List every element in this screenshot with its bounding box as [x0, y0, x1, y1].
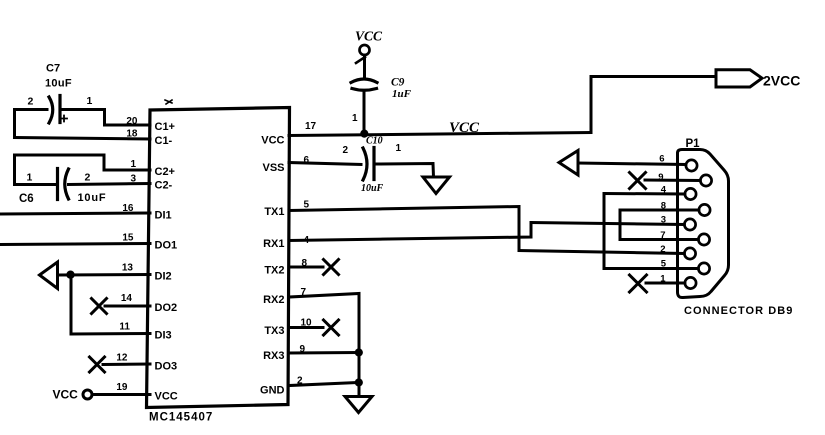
wire DB9 pin 4 [604, 192, 685, 196]
wire VSS to C10 [289, 163, 361, 165]
svg-text:1: 1 [396, 143, 402, 154]
svg-text:C1-: C1- [155, 135, 173, 147]
tick mark on VCC wire [356, 57, 365, 63]
wire DB9 pin 7 [620, 238, 698, 241]
capacitor C10 [363, 148, 374, 181]
no-connect X DO2 [92, 299, 107, 314]
IC U1 MC145407 body [147, 100, 290, 408]
svg-text:14: 14 [121, 293, 133, 304]
svg-text:1: 1 [352, 113, 358, 124]
wire C6 bottom left to plate [15, 183, 57, 186]
wire C9 to VCC net [363, 91, 366, 134]
wire C6 plate to C2- [69, 184, 151, 185]
wire DI2 [58, 273, 151, 277]
ground symbol G1 [423, 177, 450, 194]
svg-text:7: 7 [660, 230, 665, 241]
wire DO3 [103, 363, 150, 367]
capacitor C9 [351, 79, 377, 90]
svg-text:1uF: 1uF [392, 88, 412, 100]
svg-text:10uF: 10uF [361, 183, 384, 194]
no-connect X TX2 [324, 260, 339, 275]
svg-text:2VCC: 2VCC [763, 73, 800, 89]
wire bus pin4 to pin5 [603, 194, 606, 269]
wire TX2 [289, 266, 323, 269]
svg-text:TX3: TX3 [264, 325, 284, 337]
wire C7 left vertical [13, 110, 16, 138]
svg-text:3: 3 [661, 215, 666, 226]
svg-text:VCC: VCC [155, 391, 178, 403]
DB9 pin 8 circle [699, 204, 710, 215]
wire VCC terminal to C9 [363, 55, 366, 77]
ground symbol G2 [345, 397, 372, 413]
wire DB9 pin 2 to TX1 [519, 251, 684, 254]
wire C10 to ground [376, 164, 434, 178]
DB9 pin 2 circle [684, 248, 695, 259]
wire VCC net to flag [591, 75, 716, 78]
svg-text:C2-: C2- [155, 180, 173, 192]
junction GND node [355, 378, 363, 386]
svg-text:6: 6 [659, 154, 664, 165]
svg-text:1: 1 [130, 159, 136, 170]
no-connect X TX3 [324, 320, 339, 335]
svg-text:2: 2 [660, 244, 665, 255]
wire DO1 [0, 244, 150, 245]
svg-text:4: 4 [661, 185, 667, 196]
svg-text:RX3: RX3 [263, 350, 284, 362]
no-connect X DB9 pin 1 [630, 275, 647, 292]
wire jog down to C2+ [104, 155, 150, 170]
svg-text:C1+: C1+ [155, 121, 176, 133]
DB9 pin 5 circle [698, 263, 709, 274]
connector P1 DB9 shell [678, 150, 729, 298]
svg-text:DO3: DO3 [155, 361, 178, 373]
svg-text:VCC: VCC [261, 135, 284, 147]
wire TX1 [289, 207, 519, 251]
svg-text:RX2: RX2 [263, 294, 284, 306]
junction VCC/C9 node [360, 130, 368, 138]
wire DB9 pin 9 [645, 179, 700, 183]
DB9 pin 9 circle [700, 175, 711, 186]
svg-text:RX1: RX1 [263, 238, 284, 250]
svg-text:C7: C7 [46, 63, 60, 75]
svg-text:VSS: VSS [262, 162, 284, 174]
wire VCC net horizontal [289, 133, 591, 136]
svg-text:1: 1 [27, 172, 33, 184]
svg-text:1: 1 [87, 95, 93, 107]
wire RX2 [289, 294, 359, 384]
wire bottom to C1- [15, 138, 151, 140]
wire DB9 pin 1 [646, 282, 685, 285]
junction RX3/RX2 node [355, 348, 363, 356]
wire C6 left vertical [13, 155, 16, 185]
wire GND to ground [358, 383, 361, 397]
svg-text:TX1: TX1 [264, 206, 284, 218]
wire VCC net vertical up [590, 77, 593, 133]
svg-text:19: 19 [116, 382, 128, 393]
wire DI1 [0, 213, 150, 214]
svg-text:2: 2 [28, 96, 34, 108]
svg-text:2: 2 [343, 145, 349, 156]
svg-text:15: 15 [122, 233, 134, 244]
wire GND pin [289, 383, 359, 386]
svg-text:17: 17 [305, 121, 317, 132]
wire jog down to C1+ [105, 110, 151, 126]
svg-text:11: 11 [119, 322, 130, 333]
arrow at DB9 pin 6 [559, 151, 578, 176]
DB9 pin 6 circle [686, 160, 697, 171]
wire DO2 [105, 305, 150, 308]
svg-text:DO1: DO1 [155, 240, 178, 252]
svg-text:DO2: DO2 [155, 302, 178, 314]
svg-text:1: 1 [660, 274, 666, 285]
wire RX1 [289, 223, 531, 241]
svg-text:DI1: DI1 [155, 210, 172, 222]
DB9 pin 1 circle [685, 277, 696, 288]
arrow input DI2 [40, 262, 58, 289]
svg-text:TX2: TX2 [264, 265, 284, 277]
svg-text:VCC: VCC [355, 29, 383, 44]
wire DB9 pin 8 [620, 209, 699, 212]
svg-text:10uF: 10uF [78, 192, 107, 204]
junction DI2 node [66, 271, 74, 279]
DB9 pin 4 circle [685, 188, 696, 199]
wire DB9 pin 5 [604, 267, 698, 270]
wire TX3 [289, 326, 323, 329]
terminal VCC top [355, 29, 383, 56]
capacitor C6 [58, 169, 69, 200]
svg-text:DI3: DI3 [155, 330, 172, 342]
svg-text:MC145407: MC145407 [149, 412, 213, 424]
svg-text:13: 13 [122, 263, 134, 274]
svg-text:P1: P1 [686, 138, 701, 150]
DB9 pin 3 circle [684, 219, 695, 230]
svg-text:10uF: 10uF [45, 78, 72, 90]
svg-text:5: 5 [661, 259, 667, 270]
wire C6 top to jog [15, 154, 105, 157]
no-connect X DO3 [90, 357, 105, 372]
wire DB9 pin 3 to RX1 [531, 223, 684, 225]
svg-text:C6: C6 [19, 193, 34, 205]
power flag 2VCC [716, 70, 762, 87]
wire bus pin8 to pin7 [619, 210, 622, 240]
wire VCC left pin 19 [92, 393, 150, 396]
svg-text:VCC: VCC [53, 388, 79, 402]
svg-text:CONNECTOR DB9: CONNECTOR DB9 [684, 305, 793, 317]
wire C7 plate to jog [60, 108, 105, 111]
svg-text:VCC: VCC [449, 120, 480, 136]
svg-text:2: 2 [85, 172, 91, 184]
wire DB9 pin 6 to arrow [578, 163, 686, 165]
svg-text:8: 8 [661, 201, 666, 212]
wire RX3 [289, 351, 359, 355]
svg-text:GND: GND [260, 385, 285, 397]
wire DI2 to DI3 vertical [70, 275, 73, 334]
capacitor C7 [49, 96, 67, 124]
wire DI3 [71, 332, 150, 336]
DB9 pin 7 circle [698, 234, 709, 245]
svg-text:9: 9 [658, 172, 663, 183]
wire C7 left to plate [15, 108, 48, 111]
svg-text:C9: C9 [391, 77, 405, 89]
svg-text:12: 12 [116, 353, 128, 364]
no-connect X DB9 pin 9 [630, 173, 646, 189]
svg-text:DI2: DI2 [155, 271, 172, 283]
svg-text:C10: C10 [366, 136, 383, 147]
svg-text:C2+: C2+ [155, 166, 176, 178]
